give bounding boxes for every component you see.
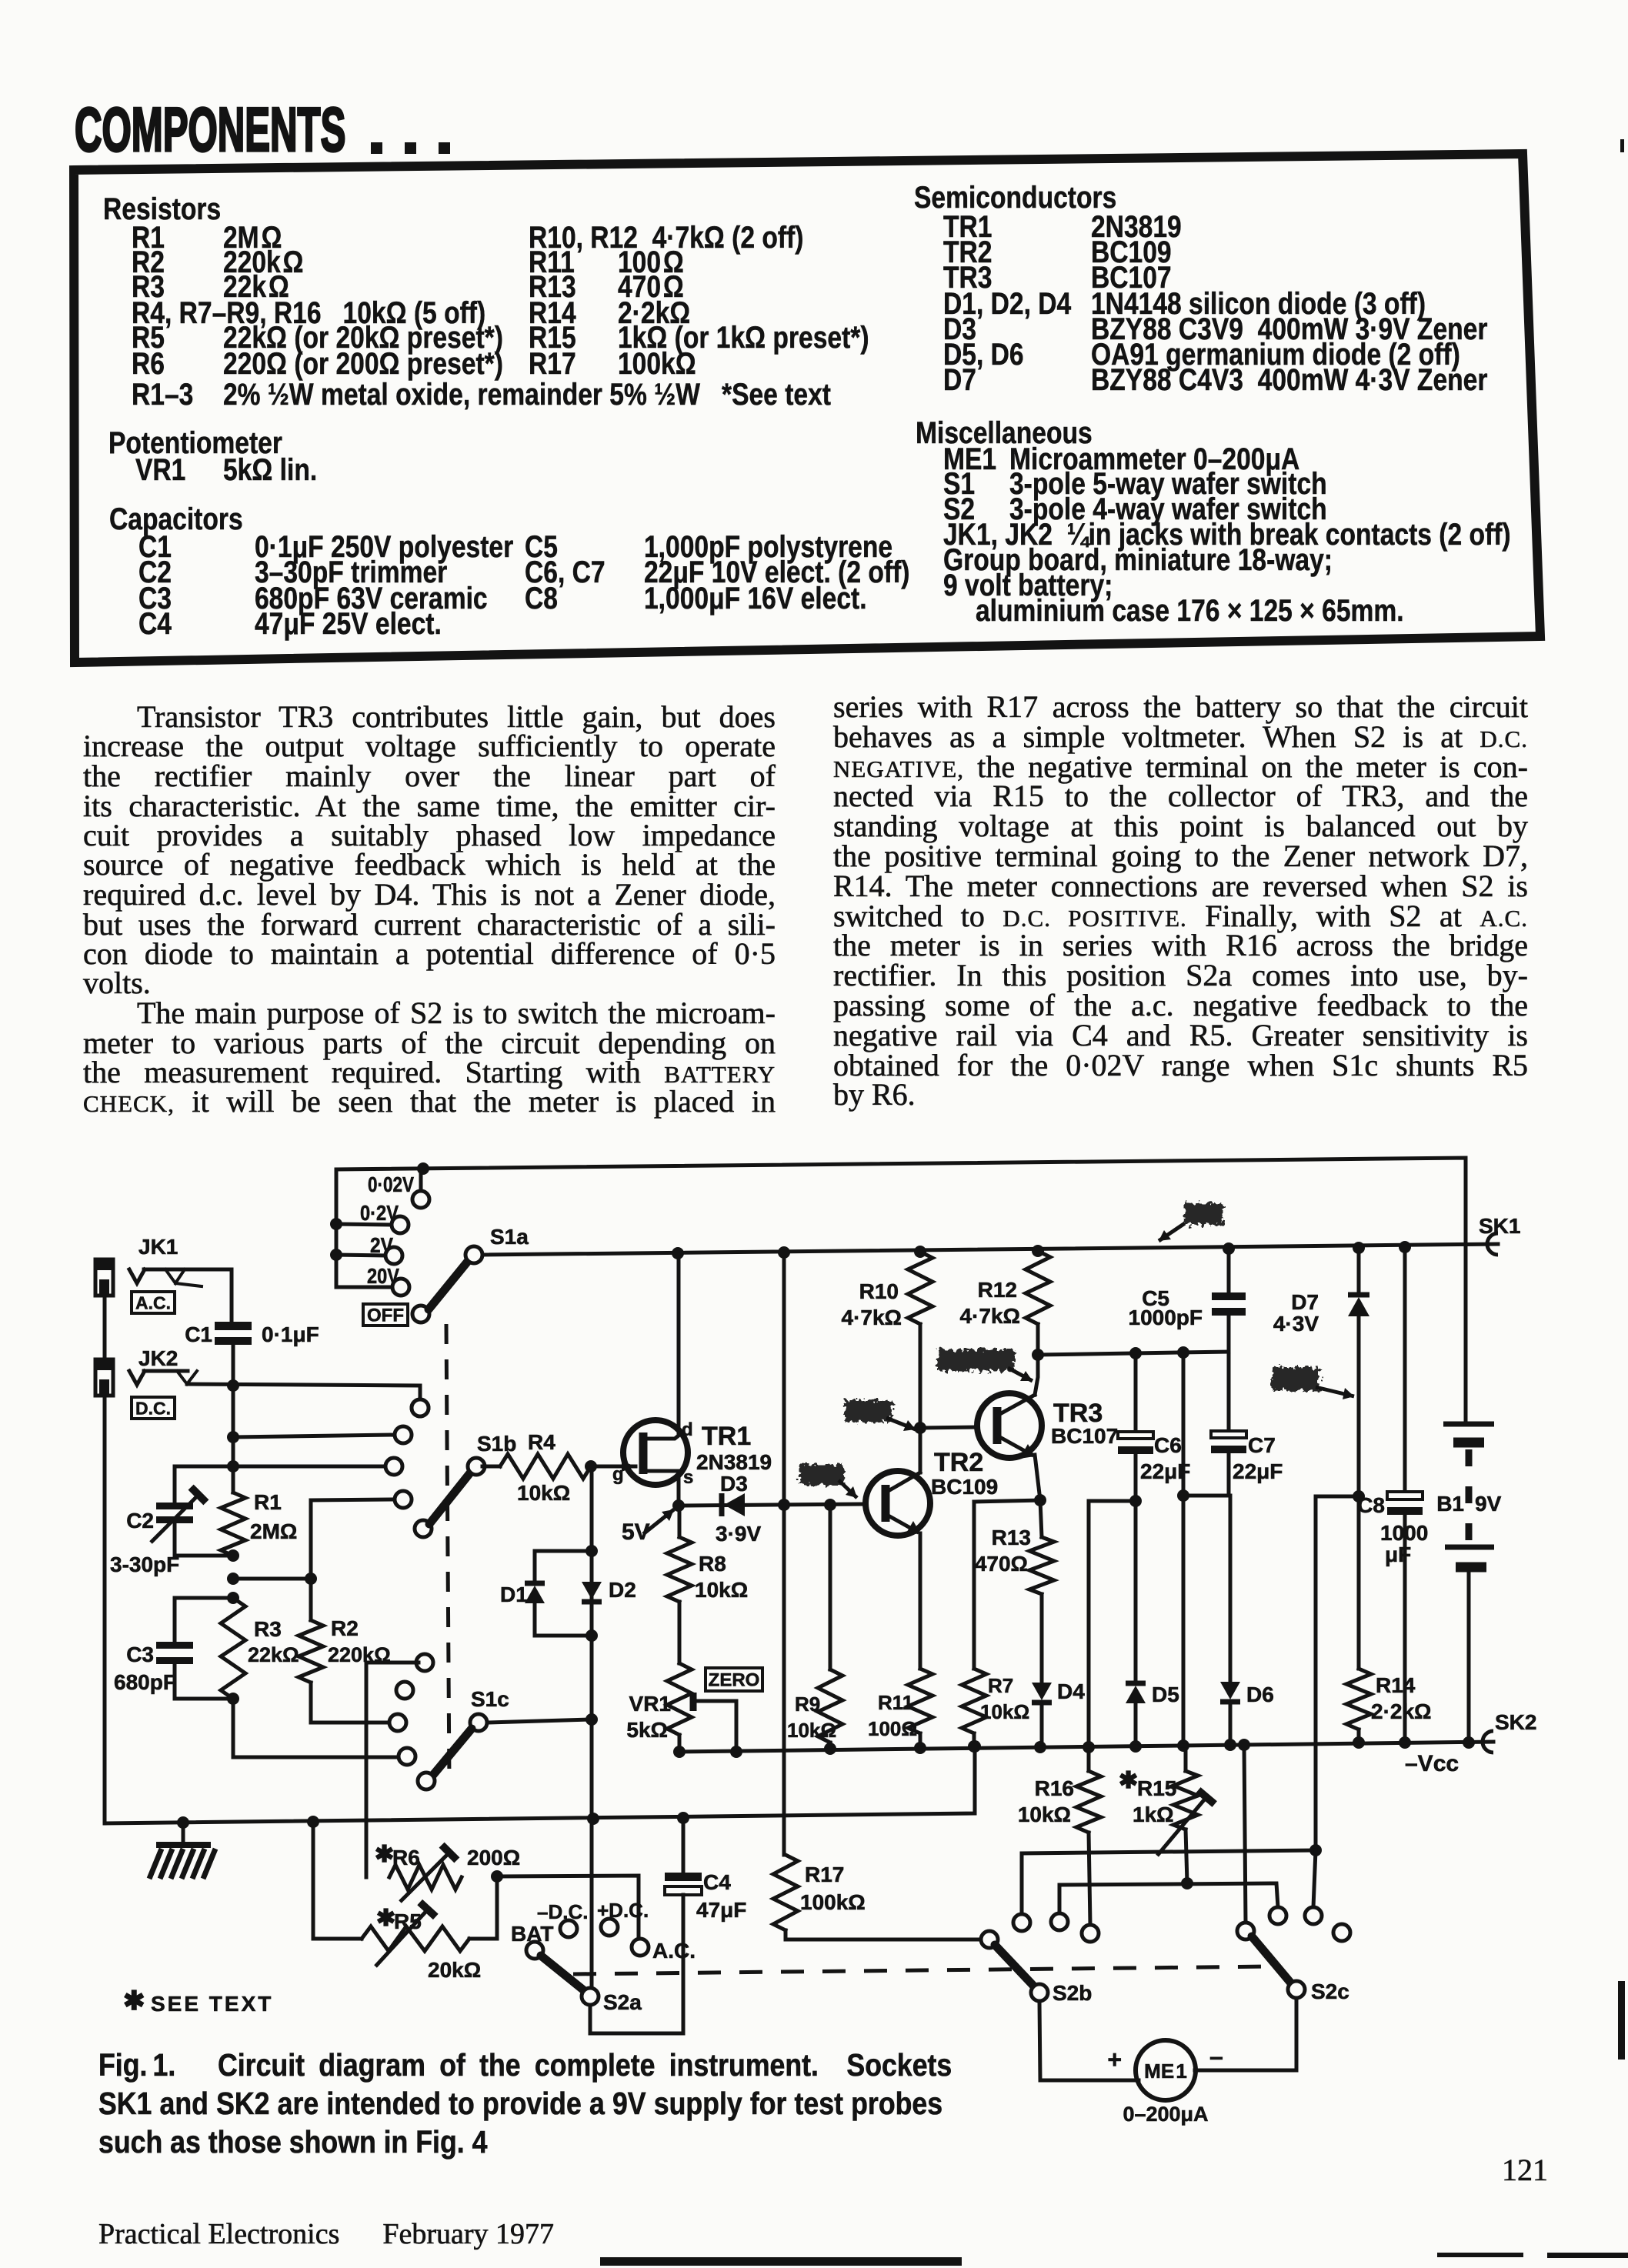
svg-text:S2a: S2a	[603, 1990, 642, 2014]
svg-text:D5: D5	[1152, 1683, 1179, 1706]
svg-text:✱: ✱	[1119, 1768, 1138, 1793]
svg-text:R4: R4	[528, 1430, 555, 1454]
svg-text:JK1: JK1	[138, 1235, 178, 1259]
svg-text:2V: 2V	[370, 1233, 393, 1257]
svg-text:+: +	[1107, 2046, 1122, 2073]
svg-text:ZERO: ZERO	[709, 1670, 760, 1691]
svg-text:D7: D7	[1291, 1290, 1319, 1314]
svg-text:680pF: 680pF	[114, 1670, 176, 1694]
svg-text:–: –	[1209, 2043, 1223, 2070]
svg-text:✱: ✱	[123, 1986, 145, 2016]
svg-text:S2c: S2c	[1311, 1979, 1349, 2003]
svg-text:d: d	[682, 1419, 693, 1440]
svg-text:C4: C4	[703, 1870, 731, 1894]
svg-text:+D.C.: +D.C.	[597, 1899, 649, 1922]
svg-text:R7: R7	[988, 1674, 1013, 1697]
svg-text:D2: D2	[609, 1578, 636, 1602]
svg-text:s: s	[683, 1467, 693, 1488]
svg-text:22μF: 22μF	[1140, 1459, 1190, 1483]
svg-text:R8: R8	[699, 1552, 726, 1576]
svg-text:R15: R15	[1137, 1776, 1176, 1800]
svg-text:3-30pF: 3-30pF	[110, 1553, 179, 1576]
svg-text:✱: ✱	[375, 1842, 394, 1867]
svg-text:JK2: JK2	[138, 1346, 178, 1370]
svg-text:S1c: S1c	[471, 1687, 509, 1711]
svg-text:R1: R1	[254, 1490, 282, 1514]
svg-text:C3: C3	[126, 1643, 154, 1666]
svg-text:S1b: S1b	[477, 1432, 516, 1456]
svg-text:g: g	[612, 1464, 624, 1485]
svg-text:10kΩ: 10kΩ	[1018, 1803, 1071, 1826]
svg-text:2·2kΩ: 2·2kΩ	[1371, 1699, 1432, 1723]
svg-text:R10: R10	[859, 1279, 899, 1303]
svg-text:470Ω: 470Ω	[975, 1552, 1028, 1576]
svg-text:10kΩ: 10kΩ	[695, 1578, 748, 1602]
svg-text:R6: R6	[392, 1846, 420, 1869]
svg-text:R2: R2	[331, 1616, 359, 1640]
svg-text:C7: C7	[1248, 1433, 1276, 1457]
svg-text:22kΩ: 22kΩ	[248, 1643, 299, 1666]
svg-text:BAT: BAT	[511, 1922, 553, 1946]
svg-text:100Ω: 100Ω	[868, 1717, 917, 1740]
svg-text:A.C.: A.C.	[652, 1939, 696, 1963]
svg-text:3·9V: 3·9V	[716, 1522, 761, 1546]
svg-text:C2: C2	[126, 1509, 154, 1533]
svg-text:TR1: TR1	[702, 1422, 751, 1451]
svg-text:μF: μF	[1385, 1543, 1411, 1566]
svg-text:20V: 20V	[367, 1264, 399, 1288]
svg-text:47μF: 47μF	[696, 1898, 746, 1922]
svg-text:SK1: SK1	[1479, 1214, 1520, 1238]
svg-text:D4: D4	[1057, 1679, 1085, 1703]
svg-text:C6: C6	[1154, 1433, 1182, 1457]
svg-text:C1: C1	[185, 1322, 212, 1346]
svg-text:B1: B1	[1436, 1492, 1464, 1516]
svg-text:0·02V: 0·02V	[368, 1172, 414, 1196]
svg-text:2N3819: 2N3819	[696, 1450, 772, 1474]
svg-text:10kΩ: 10kΩ	[517, 1481, 570, 1505]
svg-text:R16: R16	[1035, 1776, 1074, 1800]
svg-text:VR1: VR1	[629, 1692, 671, 1716]
svg-text:ME 1: ME 1	[1144, 2060, 1187, 2083]
svg-text:BC109: BC109	[931, 1475, 998, 1499]
svg-text:BC107: BC107	[1051, 1424, 1118, 1448]
svg-text:0·2V: 0·2V	[360, 1201, 399, 1225]
svg-text:200Ω: 200Ω	[467, 1846, 520, 1869]
svg-text:22μF: 22μF	[1233, 1459, 1283, 1483]
svg-text:4·7kΩ: 4·7kΩ	[842, 1306, 902, 1329]
svg-text:1kΩ: 1kΩ	[1133, 1803, 1174, 1826]
svg-text:0·1μF: 0·1μF	[262, 1322, 319, 1346]
svg-text:10kΩ: 10kΩ	[787, 1719, 836, 1742]
svg-text:D1: D1	[500, 1583, 528, 1606]
svg-text:5kΩ: 5kΩ	[626, 1718, 668, 1742]
svg-text:R17: R17	[805, 1863, 844, 1886]
svg-text:R14: R14	[1376, 1673, 1416, 1697]
svg-text:SK2: SK2	[1495, 1710, 1536, 1734]
svg-text:R5: R5	[394, 1909, 422, 1933]
svg-text:R11: R11	[878, 1691, 913, 1714]
svg-text:0–200μA: 0–200μA	[1123, 2103, 1208, 2126]
svg-text:D6: D6	[1246, 1683, 1274, 1706]
svg-text:SEE TEXT: SEE TEXT	[151, 1992, 273, 2016]
svg-text:9V: 9V	[1475, 1492, 1502, 1516]
svg-text:2MΩ: 2MΩ	[250, 1519, 297, 1543]
svg-text:TR2: TR2	[934, 1448, 983, 1477]
svg-text:R12: R12	[978, 1278, 1017, 1302]
svg-text:4·7kΩ: 4·7kΩ	[960, 1304, 1021, 1328]
svg-text:10kΩ: 10kΩ	[980, 1700, 1029, 1723]
svg-text:R3: R3	[254, 1617, 282, 1641]
svg-text:A.C.: A.C.	[135, 1292, 171, 1312]
svg-text:S2b: S2b	[1053, 1981, 1092, 2005]
svg-text:R9: R9	[795, 1693, 820, 1716]
svg-text:–D.C.: –D.C.	[537, 1900, 588, 1923]
svg-text:R13: R13	[992, 1526, 1031, 1549]
svg-text:D3: D3	[720, 1472, 748, 1496]
svg-text:20kΩ: 20kΩ	[428, 1958, 481, 1982]
svg-text:4·3V: 4·3V	[1273, 1312, 1319, 1336]
svg-text:C8: C8	[1357, 1493, 1385, 1517]
svg-text:1000pF: 1000pF	[1129, 1306, 1203, 1329]
svg-text:–Vcc: –Vcc	[1405, 1751, 1459, 1776]
svg-text:OFF: OFF	[367, 1306, 404, 1326]
svg-text:✱: ✱	[376, 1906, 395, 1931]
svg-text:100kΩ: 100kΩ	[800, 1890, 866, 1914]
svg-text:D.C.: D.C.	[135, 1398, 171, 1418]
svg-text:S1a: S1a	[490, 1225, 529, 1249]
